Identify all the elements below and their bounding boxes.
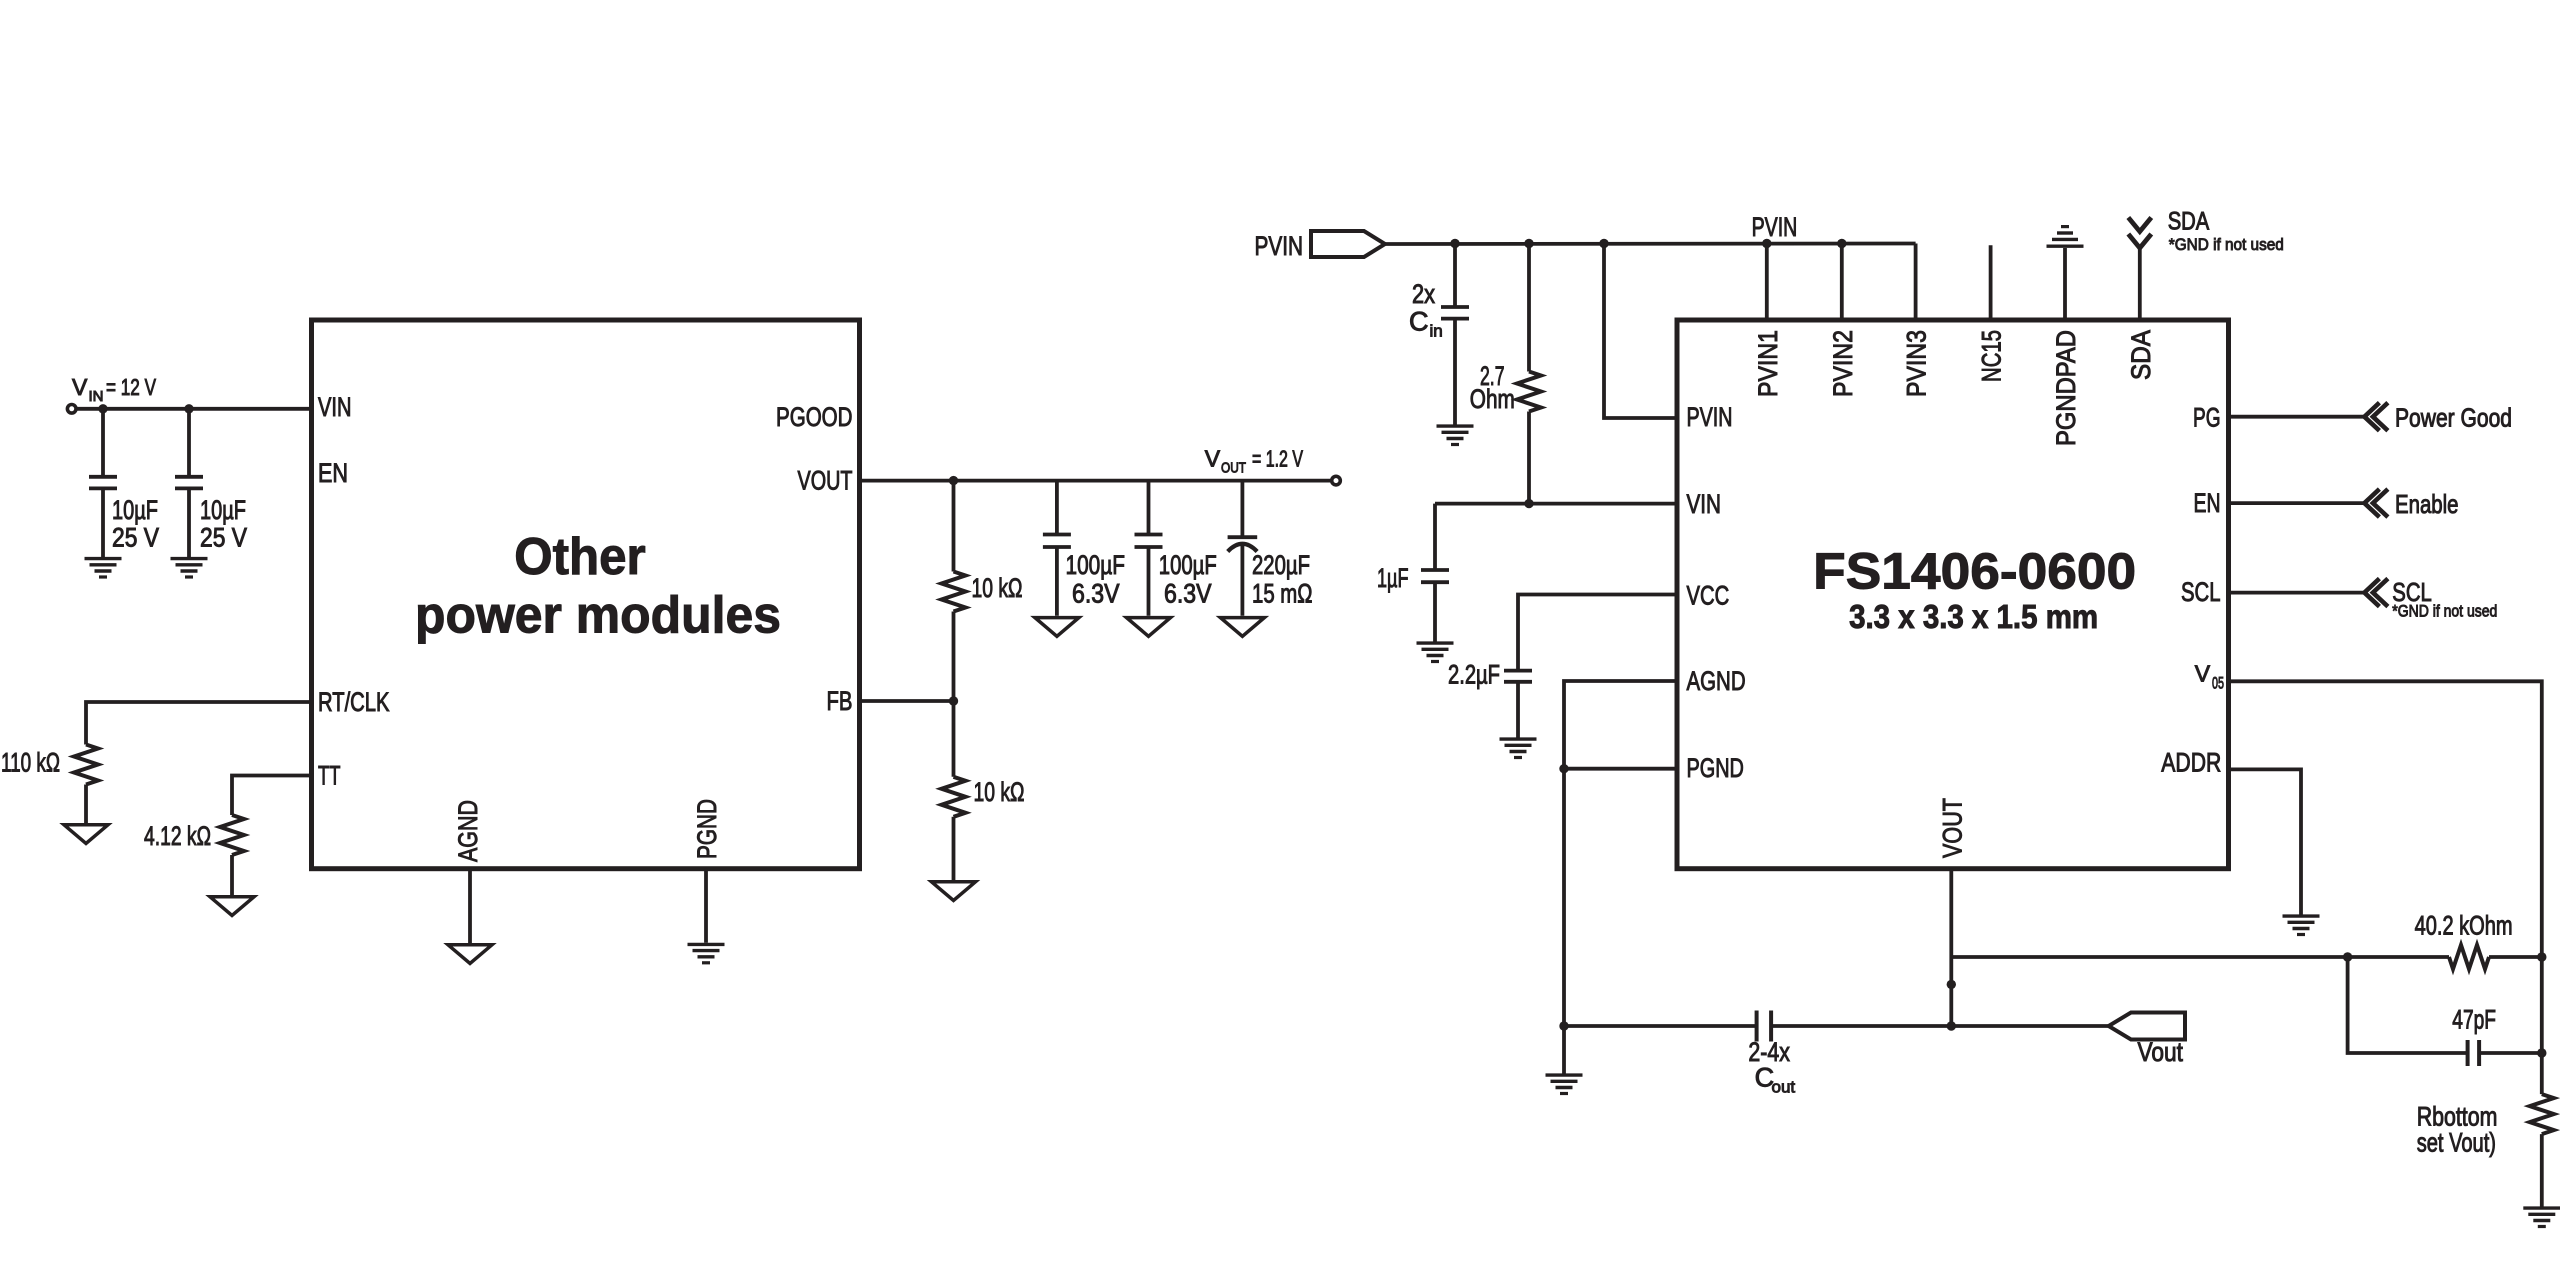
- svg-text:VCC: VCC: [1687, 581, 1730, 611]
- svg-text:power modules: power modules: [415, 586, 781, 644]
- svg-text:PG: PG: [2193, 403, 2221, 433]
- svg-text:V: V: [2195, 660, 2211, 686]
- svg-text:10µF: 10µF: [200, 495, 246, 525]
- svg-text:AGND: AGND: [453, 800, 483, 862]
- svg-text:Other: Other: [514, 528, 646, 586]
- svg-text:V: V: [72, 374, 88, 400]
- svg-text:out: out: [1772, 1078, 1796, 1097]
- svg-text:PVIN: PVIN: [1687, 402, 1733, 432]
- svg-text:PGNDPAD: PGNDPAD: [2051, 330, 2081, 446]
- svg-text:SDA: SDA: [2168, 208, 2210, 236]
- svg-text:25 V: 25 V: [200, 523, 247, 553]
- svg-text:2.2µF: 2.2µF: [1448, 660, 1500, 690]
- svg-text:Ohm: Ohm: [1470, 384, 1515, 414]
- svg-text:25 V: 25 V: [112, 523, 159, 553]
- svg-text:47pF: 47pF: [2452, 1004, 2496, 1034]
- svg-text:PVIN2: PVIN2: [1828, 330, 1858, 397]
- svg-text:220µF: 220µF: [1252, 550, 1310, 580]
- svg-text:6.3V: 6.3V: [1072, 579, 1120, 609]
- svg-text:PVIN1: PVIN1: [1753, 330, 1783, 397]
- svg-text:= 12 V: = 12 V: [106, 374, 156, 400]
- svg-text:NC15: NC15: [1977, 330, 2007, 382]
- svg-text:IN: IN: [89, 389, 104, 405]
- svg-text:AGND: AGND: [1687, 666, 1746, 696]
- svg-text:in: in: [1430, 322, 1443, 341]
- svg-text:10 kΩ: 10 kΩ: [974, 777, 1025, 807]
- svg-text:OUT: OUT: [1221, 460, 1246, 476]
- svg-text:FS1406-0600: FS1406-0600: [1813, 542, 2136, 599]
- svg-text:VOUT: VOUT: [1937, 798, 1967, 858]
- svg-text:set Vout): set Vout): [2417, 1128, 2496, 1158]
- svg-text:PGND: PGND: [1687, 753, 1744, 783]
- svg-text:RT/CLK: RT/CLK: [318, 687, 390, 717]
- svg-text:ADDR: ADDR: [2161, 747, 2221, 777]
- svg-text:*GND if not used: *GND if not used: [2169, 235, 2284, 254]
- svg-text:15 mΩ: 15 mΩ: [1252, 579, 1313, 609]
- svg-text:100µF: 100µF: [1066, 550, 1126, 580]
- svg-text:PVIN: PVIN: [1752, 212, 1798, 242]
- svg-text:4.12 kΩ: 4.12 kΩ: [144, 821, 211, 851]
- svg-text:10 kΩ: 10 kΩ: [972, 573, 1023, 603]
- svg-text:SDA: SDA: [2126, 330, 2156, 380]
- svg-text:2x: 2x: [1412, 279, 1435, 309]
- svg-text:C: C: [1409, 307, 1429, 337]
- svg-text:1µF: 1µF: [1377, 563, 1409, 593]
- svg-text:40.2 kOhm: 40.2 kOhm: [2415, 911, 2513, 941]
- svg-text:*GND if not used: *GND if not used: [2392, 602, 2497, 621]
- svg-text:Power Good: Power Good: [2395, 403, 2512, 433]
- svg-text:05: 05: [2212, 674, 2224, 693]
- svg-text:FB: FB: [827, 686, 853, 716]
- svg-text:3.3 x 3.3 x 1.5 mm: 3.3 x 3.3 x 1.5 mm: [1849, 598, 2098, 635]
- svg-text:TT: TT: [318, 761, 341, 791]
- svg-text:PGOOD: PGOOD: [776, 402, 853, 432]
- svg-text:= 1.2 V: = 1.2 V: [1252, 445, 1303, 471]
- svg-text:PGND: PGND: [692, 799, 722, 859]
- svg-text:PVIN: PVIN: [1255, 231, 1304, 261]
- svg-text:EN: EN: [318, 458, 348, 488]
- svg-text:VIN: VIN: [318, 392, 352, 422]
- svg-text:EN: EN: [2194, 488, 2221, 518]
- svg-text:V: V: [1205, 445, 1221, 471]
- svg-text:SCL: SCL: [2181, 577, 2221, 607]
- svg-text:10µF: 10µF: [112, 495, 158, 525]
- svg-text:Vout: Vout: [2138, 1037, 2184, 1067]
- svg-text:100µF: 100µF: [1159, 550, 1217, 580]
- svg-text:6.3V: 6.3V: [1164, 579, 1212, 609]
- svg-text:VOUT: VOUT: [798, 466, 853, 496]
- svg-text:PVIN3: PVIN3: [1902, 330, 1932, 397]
- svg-text:Enable: Enable: [2395, 489, 2459, 519]
- svg-text:VIN: VIN: [1687, 489, 1722, 519]
- svg-text:110 kΩ: 110 kΩ: [1, 748, 60, 778]
